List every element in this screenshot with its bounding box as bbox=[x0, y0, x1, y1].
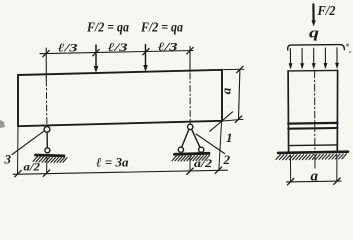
extension line beam right edge to dim bbox=[219, 123, 222, 171]
side column right edge bbox=[336, 70, 338, 152]
force arrow F/2 second (head) bbox=[143, 65, 148, 72]
right ground hatching bbox=[172, 155, 210, 161]
force arrow F/2 second (stem) bbox=[145, 45, 147, 67]
left ground bar bbox=[36, 154, 65, 158]
side width dim left tick bbox=[287, 179, 293, 185]
pinned support right foot circle bbox=[199, 147, 204, 152]
pinned support left leg bbox=[182, 129, 189, 147]
side width dim line bbox=[287, 180, 342, 183]
dist arrow 3 head bbox=[312, 63, 316, 69]
bottom tick at right support bbox=[187, 168, 193, 174]
tick at right support bbox=[187, 47, 193, 53]
beam height dim line bbox=[239, 70, 240, 120]
dist arrow 2 stem bbox=[301, 48, 303, 64]
scan speck lower right of hook bbox=[349, 51, 351, 53]
dist arrow 1 stem bbox=[289, 49, 291, 65]
height dim bottom tick bbox=[235, 116, 241, 122]
bottom dimension line bbox=[13, 170, 228, 174]
pinned support left foot circle bbox=[178, 147, 183, 152]
roller support (element 3): upper hinge circle bbox=[44, 126, 50, 132]
roller support lower hinge circle bbox=[45, 148, 50, 153]
tick at first load bbox=[93, 49, 99, 55]
left support centerline (solid above beam) bbox=[45, 48, 47, 80]
side column base line bbox=[289, 144, 338, 147]
beam height dim: bottom extension bbox=[223, 119, 243, 121]
extension line beam left edge to dim bbox=[17, 128, 20, 175]
side force F/2 arrow stem bbox=[312, 5, 314, 22]
callout 2 leader bbox=[196, 134, 225, 154]
side column band line upper bbox=[288, 122, 337, 125]
beam height dim: top extension bbox=[224, 68, 244, 70]
svg-text:F/2 = qa: F/2 = qa bbox=[140, 21, 183, 36]
side column band line lower bbox=[288, 127, 337, 130]
force arrow F/2 first (stem) bbox=[95, 45, 97, 67]
svg-text:a: a bbox=[219, 87, 234, 94]
svg-text:q: q bbox=[309, 26, 320, 42]
callout 1 leader bbox=[210, 112, 233, 132]
svg-text:F/2: F/2 bbox=[317, 4, 336, 19]
side column left edge bbox=[287, 71, 290, 152]
height dim top tick bbox=[237, 66, 243, 72]
left ground hatching bbox=[33, 157, 67, 163]
svg-text:ℓ/3: ℓ/3 bbox=[108, 40, 128, 54]
callout 3 leader bbox=[12, 131, 45, 155]
svg-text:ℓ/3: ℓ/3 bbox=[158, 40, 178, 54]
roller support link stem bbox=[46, 132, 48, 148]
svg-text:3: 3 bbox=[4, 152, 12, 167]
side width dim extension left bbox=[289, 155, 291, 182]
right support centerline (dash-dot in beam) bbox=[189, 73, 191, 124]
left support centerline (dash-dot in beam) bbox=[45, 80, 48, 126]
dist arrow 5 stem bbox=[336, 48, 338, 64]
scan speck right of load hook bbox=[346, 43, 349, 46]
svg-text:a/2: a/2 bbox=[24, 160, 41, 174]
side column top edge bbox=[288, 69, 338, 72]
dist arrow 3 stem bbox=[313, 48, 315, 64]
top dimension line bbox=[40, 51, 193, 54]
side force F/2 arrow head bbox=[312, 20, 316, 26]
beam (element 1) outline bbox=[18, 70, 222, 126]
dist arrow 1 head bbox=[289, 63, 293, 69]
bottom tick at left support bbox=[43, 170, 49, 176]
dist arrow 4 head bbox=[324, 63, 328, 69]
force arrow F/2 first (head) bbox=[94, 66, 99, 73]
pinned support right leg bbox=[192, 129, 200, 147]
tick at left support bbox=[43, 50, 49, 56]
side centerline below ground bbox=[314, 155, 316, 169]
right ground bar bbox=[175, 153, 210, 154]
svg-text:ℓ = 3a: ℓ = 3a bbox=[96, 155, 129, 170]
pinned support (element 2): pin circle bbox=[188, 124, 193, 129]
dist arrow 5 head bbox=[335, 63, 339, 69]
svg-text:F/2 = qa: F/2 = qa bbox=[86, 21, 129, 36]
svg-text:a: a bbox=[311, 169, 319, 185]
tick at second load bbox=[143, 48, 149, 54]
side column centerline bbox=[314, 71, 316, 152]
dist arrow 4 stem bbox=[324, 48, 326, 64]
side width dim extension right bbox=[336, 155, 338, 182]
bottom tick at beam left edge bbox=[15, 170, 21, 176]
dist arrow 2 head bbox=[300, 63, 304, 69]
extension line left support to dim bbox=[46, 158, 49, 175]
distributed load top line with hooks bbox=[288, 45, 345, 50]
scan smudge left edge bbox=[0, 120, 5, 128]
side ground hatching bbox=[276, 154, 347, 160]
side width dim right tick bbox=[334, 178, 340, 184]
svg-text:1: 1 bbox=[226, 130, 233, 145]
extension line right support to dim bbox=[189, 156, 191, 172]
svg-text:a/2: a/2 bbox=[194, 156, 212, 170]
right support centerline (solid above beam) bbox=[189, 47, 191, 72]
svg-text:ℓ/3: ℓ/3 bbox=[58, 41, 78, 55]
bottom tick at beam right edge bbox=[215, 167, 221, 173]
svg-text:2: 2 bbox=[223, 152, 231, 167]
side ground bar bbox=[278, 152, 348, 153]
